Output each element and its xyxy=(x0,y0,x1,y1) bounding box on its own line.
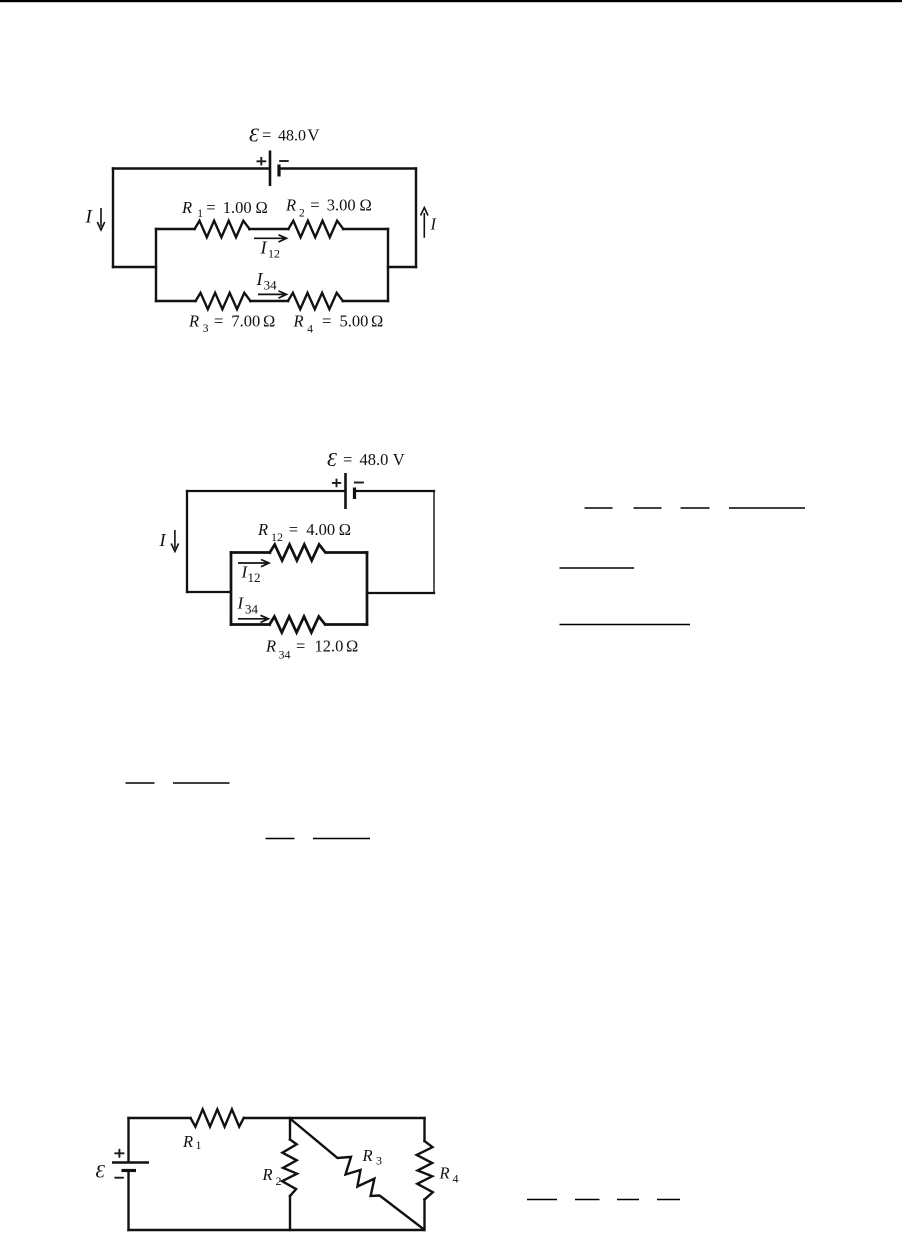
wire right thin (circuit 2) xyxy=(433,491,435,593)
wire middle lower (circuit 3) xyxy=(289,1196,291,1230)
battery plate + (circuit 3) xyxy=(112,1161,149,1164)
svg-text:34: 34 xyxy=(245,602,259,617)
svg-text:R: R xyxy=(293,312,304,331)
svg-text:=: = xyxy=(206,198,215,217)
fraction bar row A seg1 xyxy=(585,507,613,509)
svg-text:12.0: 12.0 xyxy=(315,637,344,656)
svg-text:V: V xyxy=(307,126,320,145)
fraction bar B xyxy=(560,567,635,569)
svg-text:R: R xyxy=(188,312,199,331)
svg-text:V: V xyxy=(393,450,405,469)
svg-text:=: = xyxy=(289,520,298,539)
svg-text:1: 1 xyxy=(196,1138,202,1152)
svg-text:R: R xyxy=(285,196,296,215)
svg-text:1: 1 xyxy=(197,208,203,220)
fraction bar row A seg2 xyxy=(634,507,662,509)
wire top branch (circuit 1) xyxy=(156,228,388,230)
wire top branch (circuit 2) xyxy=(231,551,367,554)
svg-text:Ɛ: Ɛ xyxy=(96,1162,106,1183)
battery plate - (circuit 2) xyxy=(353,488,356,500)
node left box edge (circuit 2) xyxy=(230,553,233,625)
resistor R4 (circuit 3) xyxy=(417,1141,433,1200)
battery plate + (circuit 1) xyxy=(269,151,272,187)
svg-text:4: 4 xyxy=(453,1172,459,1186)
svg-text:3: 3 xyxy=(376,1154,382,1168)
node right box edge (circuit 1) xyxy=(387,229,389,301)
fraction bar row F seg3 xyxy=(617,1199,639,1201)
svg-text:Ɛ: Ɛ xyxy=(327,449,337,471)
svg-text:=: = xyxy=(214,312,223,331)
svg-text:Ω: Ω xyxy=(360,196,372,215)
wire right (circuit 1) xyxy=(415,169,417,268)
arrow I12 (circuit 2) xyxy=(238,560,269,567)
svg-text:R: R xyxy=(439,1164,450,1183)
fraction bar row D seg1 xyxy=(126,782,155,784)
arrow I down-left (circuit 1) xyxy=(97,208,104,230)
svg-text:R: R xyxy=(257,520,268,539)
svg-text:3.00: 3.00 xyxy=(327,196,356,215)
svg-text:2: 2 xyxy=(276,1174,282,1188)
arrow I12 (circuit 1) xyxy=(254,235,287,242)
resistor R2 (circuit 3) xyxy=(282,1140,297,1197)
node left box edge (circuit 1) xyxy=(155,229,157,301)
wire top right (circuit 2) xyxy=(355,490,435,492)
wire bottom (circuit 3) xyxy=(129,1229,425,1231)
svg-text:1.00: 1.00 xyxy=(223,198,252,217)
svg-text:Ω: Ω xyxy=(346,637,358,656)
battery plate + (circuit 2) xyxy=(344,473,347,509)
svg-text:34: 34 xyxy=(264,278,278,293)
svg-text:48.0: 48.0 xyxy=(278,128,306,145)
wire left (circuit 1) xyxy=(112,169,114,268)
wire right upper (circuit 3) xyxy=(423,1118,425,1141)
arrow I up-right (circuit 1) xyxy=(421,208,428,238)
svg-text:=: = xyxy=(322,312,331,331)
svg-text:12: 12 xyxy=(248,570,261,585)
svg-text:3: 3 xyxy=(203,323,209,335)
arrow I down (circuit 2) xyxy=(171,530,178,552)
svg-text:R: R xyxy=(265,637,276,656)
fraction bar row A seg4 xyxy=(729,507,805,509)
battery + sign (circuit 2) xyxy=(332,479,341,488)
wire bottom-right connector (circuit 1) xyxy=(388,266,416,268)
resistor R3 xyxy=(196,293,251,309)
svg-text:Ω: Ω xyxy=(371,312,383,331)
resistor R1 xyxy=(195,221,250,238)
svg-text:Ω: Ω xyxy=(339,520,351,539)
battery + sign (circuit 1) xyxy=(257,157,267,165)
battery - sign (circuit 2) xyxy=(354,482,364,484)
page top edge bar xyxy=(0,0,902,2)
wire top right (circuit 1) xyxy=(279,167,416,169)
fraction bar C xyxy=(560,624,691,626)
fraction bar row F seg4 xyxy=(657,1199,680,1201)
svg-text:R: R xyxy=(362,1146,373,1165)
svg-text:5.00: 5.00 xyxy=(340,312,369,331)
wire middle-left connector (circuit 2) xyxy=(187,591,231,593)
svg-text:Ɛ: Ɛ xyxy=(249,125,259,147)
wire bottom branch (circuit 1) xyxy=(156,300,388,302)
fraction bar row F seg1 xyxy=(527,1199,557,1201)
wire right lower (circuit 3) xyxy=(423,1200,425,1231)
resistor R3 diagonal (circuit 3) xyxy=(290,1119,424,1230)
svg-text:I: I xyxy=(260,238,268,258)
resistor R12 xyxy=(270,545,326,561)
svg-text:=: = xyxy=(296,637,305,656)
resistor R1 (circuit 3) xyxy=(191,1109,244,1126)
svg-text:48.0: 48.0 xyxy=(360,450,389,469)
svg-text:Ω: Ω xyxy=(256,198,268,217)
svg-text:2: 2 xyxy=(299,208,305,220)
wire left (circuit 2) xyxy=(186,491,188,592)
svg-text:I: I xyxy=(159,530,167,550)
resistor R2 xyxy=(288,221,343,238)
node right box edge (circuit 2) xyxy=(366,553,369,625)
battery - sign (circuit 1) xyxy=(279,160,289,162)
svg-text:4: 4 xyxy=(307,324,313,336)
battery plate - (circuit 3) xyxy=(122,1169,137,1172)
svg-text:R: R xyxy=(262,1165,273,1184)
fraction bar row E seg2 xyxy=(313,838,370,840)
wire top (circuit 3) xyxy=(129,1117,425,1119)
svg-text:=: = xyxy=(262,126,271,145)
svg-text:Ω: Ω xyxy=(263,312,275,331)
wire bottom-left connector (circuit 1) xyxy=(113,266,156,268)
battery + sign (circuit 3) xyxy=(114,1149,124,1158)
svg-text:R: R xyxy=(181,198,192,217)
svg-text:4.00: 4.00 xyxy=(306,520,335,539)
svg-text:=: = xyxy=(310,196,319,215)
svg-text:=: = xyxy=(343,450,352,469)
wire middle upper (circuit 3) xyxy=(289,1118,291,1140)
fraction bar row A seg3 xyxy=(681,507,710,509)
wire top left (circuit 1) xyxy=(113,167,269,169)
fraction bar row D seg2 xyxy=(173,782,230,784)
svg-text:12: 12 xyxy=(268,247,280,261)
wire middle-right connector (circuit 2) xyxy=(367,592,434,594)
fraction bar row F seg2 xyxy=(575,1199,600,1201)
arrow I34 (circuit 2) xyxy=(238,615,269,622)
fraction bar row E seg1 xyxy=(266,838,295,840)
wire left lower (circuit 3) xyxy=(127,1171,129,1230)
svg-text:I: I xyxy=(256,269,264,289)
svg-text:7.00: 7.00 xyxy=(231,312,260,331)
battery - sign (circuit 3) xyxy=(114,1177,123,1179)
wire bottom branch (circuit 2) xyxy=(231,623,367,626)
resistor R4 xyxy=(288,293,343,309)
arrow I34 (circuit 1) xyxy=(258,291,287,298)
svg-text:R: R xyxy=(182,1132,193,1151)
wire left upper (circuit 3) xyxy=(127,1118,129,1162)
svg-text:34: 34 xyxy=(279,648,291,662)
wire top left (circuit 2) xyxy=(187,490,345,492)
resistor R34 xyxy=(270,617,326,633)
battery plate - (circuit 1) xyxy=(277,165,280,177)
svg-text:12: 12 xyxy=(271,530,283,544)
